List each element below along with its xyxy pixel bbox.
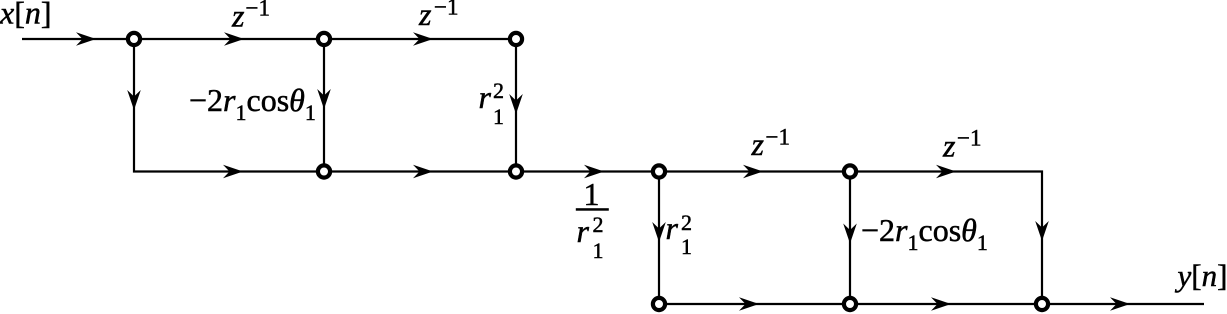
label gain 1/r1^2 fraction	[576, 176, 609, 263]
wire input x[n] to node N1	[22, 38, 134, 40]
svg-text:1: 1	[681, 234, 692, 259]
node N4	[318, 165, 330, 177]
wire N8 to N9 row C	[659, 303, 850, 305]
svg-text:−2r1cosθ1: −2r1cosθ1	[861, 212, 988, 255]
svg-text:z: z	[231, 0, 245, 34]
svg-text:−1: −1	[766, 125, 790, 150]
label delay z^-1 top seg2	[418, 0, 458, 32]
label gain r1^2 stage1	[479, 78, 505, 129]
arrow down V5	[843, 224, 857, 244]
arrow down V1	[127, 90, 141, 110]
node N6	[653, 165, 665, 177]
wire vertical N7 to N9	[849, 172, 851, 305]
label delay z^-1 row B seg1	[751, 125, 790, 163]
node N9	[844, 298, 856, 310]
svg-text:−1: −1	[957, 126, 981, 151]
arrow row C seg1	[739, 297, 759, 311]
arrow row B seg5	[936, 165, 956, 179]
arrow down V6	[1035, 221, 1049, 241]
node N5	[510, 165, 522, 177]
node N10	[1036, 298, 1048, 310]
label delay z^-1 top seg1	[231, 0, 270, 34]
node N1	[128, 33, 140, 45]
node N2	[318, 33, 330, 45]
wire N9 to N10 row C	[850, 303, 1042, 305]
svg-text:−1: −1	[434, 0, 458, 20]
arrow output	[1110, 297, 1130, 311]
node N8	[653, 298, 665, 310]
svg-text:2: 2	[593, 212, 604, 237]
wire vertical N2 to N4	[323, 39, 325, 172]
wire N10 to output y[n]	[1042, 303, 1204, 305]
svg-text:−1: −1	[246, 0, 270, 21]
svg-text:2: 2	[681, 210, 692, 235]
node N3	[510, 33, 522, 45]
wire N5 to N6 row B	[516, 170, 659, 172]
arrow row B seg4	[743, 165, 763, 179]
node N7	[844, 165, 856, 177]
svg-text:z: z	[751, 126, 765, 162]
arrow top row seg2	[413, 32, 433, 46]
arrow top row seg1	[224, 32, 244, 46]
svg-text:r: r	[666, 210, 679, 246]
svg-text:y[n]: y[n]	[1175, 258, 1227, 293]
wire vertical N3 to N5	[515, 39, 517, 172]
arrow down V3	[509, 94, 523, 114]
wire vertical N6 to N8	[658, 172, 660, 305]
arrow row B seg1	[223, 165, 243, 179]
svg-text:1: 1	[593, 238, 604, 263]
svg-text:z: z	[942, 128, 956, 164]
wire N7 to corner with vertical down to N10	[850, 172, 1042, 305]
arrow row C seg2	[931, 297, 951, 311]
wire vertical N1 down with corner to row B	[134, 39, 324, 172]
svg-text:−2r1cosθ1: −2r1cosθ1	[189, 82, 316, 125]
label delay z^-1 row B seg2	[942, 126, 981, 164]
wire N4 to N5 row B	[324, 170, 516, 172]
svg-text:x[n]: x[n]	[0, 0, 52, 31]
wire N1 to N2 top row	[134, 38, 324, 40]
svg-text:1: 1	[584, 176, 600, 212]
wire N6 to N7 row B	[659, 170, 850, 172]
label gain r1^2 stage2	[666, 210, 693, 259]
svg-text:1: 1	[493, 104, 504, 129]
label gain -2r1cos(theta1) stage1	[189, 82, 316, 125]
arrow down V4	[652, 222, 666, 242]
label gain -2r1cos(theta1) stage2	[861, 212, 988, 255]
svg-text:r: r	[479, 79, 492, 115]
svg-text:2: 2	[493, 78, 504, 103]
svg-text:r: r	[577, 213, 590, 249]
arrow down V2	[317, 89, 331, 109]
arrow input	[76, 32, 96, 46]
arrow row B seg3	[584, 165, 604, 179]
arrow row B seg2	[413, 165, 433, 179]
svg-text:z: z	[418, 0, 432, 32]
wire N2 to N3 top row	[324, 38, 516, 40]
